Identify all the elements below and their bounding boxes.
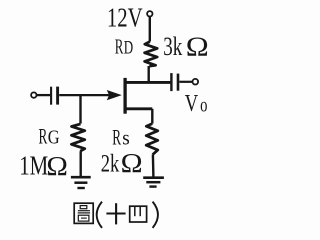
- svg-text:Ω: Ω: [186, 31, 209, 61]
- svg-text:R: R: [112, 125, 121, 150]
- caption 圖(十四) figure label: [74, 202, 158, 228]
- svg-text:G: G: [48, 127, 60, 149]
- wire drain node horizontal (drain rail to output cap): [124, 81, 171, 84]
- caption glyph 四: [130, 206, 147, 222]
- svg-text:2k: 2k: [101, 148, 120, 177]
- transistor Q1 gate arrow: [107, 90, 122, 100]
- capacitor C1 (input coupling): [50, 87, 52, 105]
- caption glyph 十: [106, 203, 125, 224]
- svg-text:D: D: [124, 38, 133, 59]
- wire source down to RS: [151, 109, 153, 124]
- resistor RG: [71, 124, 84, 151]
- wire gate down to RG: [79, 95, 81, 124]
- svg-text:s: s: [122, 126, 130, 150]
- caption glyph (: [97, 202, 102, 228]
- node VDD terminal (12V supply): [147, 11, 152, 16]
- svg-text:Ω: Ω: [121, 148, 143, 178]
- wire RS bottom to ground: [152, 155, 155, 177]
- svg-text:V: V: [185, 91, 199, 117]
- wire C2 to output terminal: [179, 81, 192, 83]
- svg-text:R: R: [39, 124, 48, 149]
- ground (RG): [71, 176, 91, 179]
- caption glyph ): [153, 202, 158, 228]
- svg-text:o: o: [200, 94, 207, 116]
- wire 12V terminal to RD top: [149, 17, 151, 42]
- wire input terminal to C1: [37, 94, 51, 96]
- wire source horizontal: [124, 107, 152, 110]
- wire gate: [59, 94, 110, 96]
- svg-text:12V: 12V: [107, 3, 143, 33]
- capacitor C2 (output coupling): [170, 73, 172, 91]
- caption glyph 圖: [74, 203, 93, 223]
- svg-text:1M: 1M: [19, 151, 48, 181]
- resistor RS: [146, 124, 158, 155]
- ground (RS): [143, 176, 164, 179]
- svg-text:Ω: Ω: [46, 150, 68, 181]
- svg-text:R: R: [115, 35, 124, 59]
- node Vo output terminal: [193, 79, 199, 85]
- wire RG bottom to ground: [79, 151, 81, 177]
- svg-text:3k: 3k: [163, 32, 182, 61]
- node input terminal: [31, 92, 36, 97]
- resistor RD: [145, 42, 158, 67]
- transistor Q1 channel bar (JFET): [123, 78, 126, 114]
- wire RD bottom to drain node: [147, 66, 149, 82]
